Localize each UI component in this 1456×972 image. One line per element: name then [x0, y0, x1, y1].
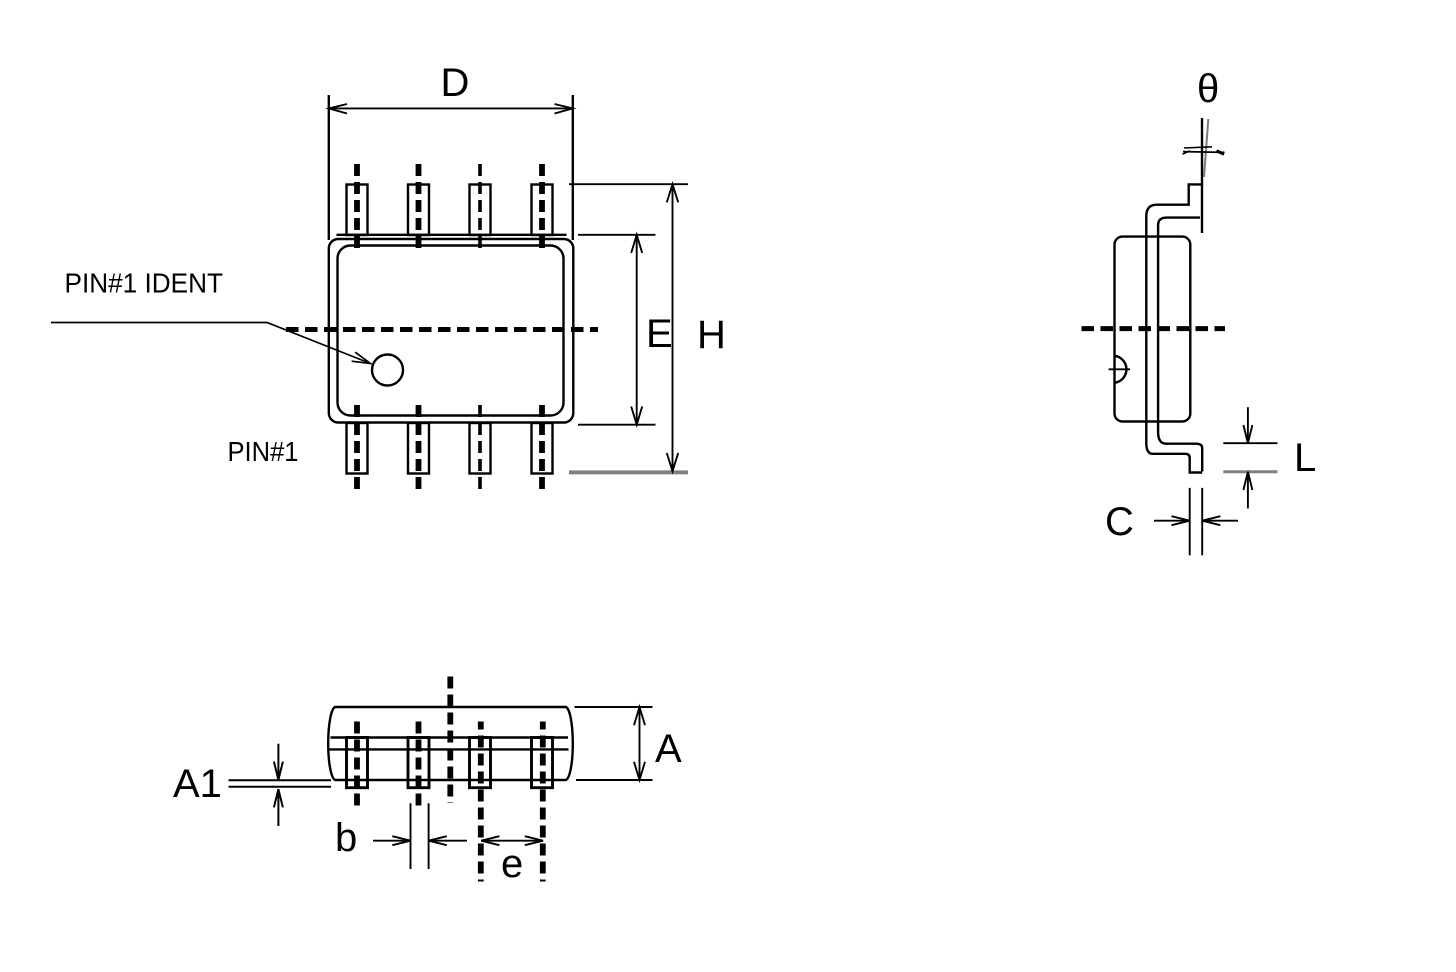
svg-text:D: D [441, 61, 470, 105]
pin 4 (top view) [532, 185, 553, 236]
svg-text:E: E [646, 312, 673, 356]
svg-text:θ: θ [1197, 67, 1219, 111]
svg-text:PIN#1 IDENT: PIN#1 IDENT [65, 268, 224, 299]
leader line to pin#1 ident [51, 323, 371, 364]
dimension E extension lines [578, 235, 656, 425]
dimension A1 arrows [277, 744, 279, 780]
lead 1 centerline [354, 722, 360, 811]
upper lead outer profile (side view) [1146, 184, 1202, 472]
body upper parting line [331, 736, 569, 738]
pin 2 (top view) [408, 185, 429, 236]
pin 3 (top view) [470, 185, 491, 236]
package body outline (front view) [328, 707, 573, 780]
theta angle dimension line [1183, 147, 1225, 154]
body top shoulder line [337, 234, 567, 236]
dimension A1 datum lines [229, 744, 332, 826]
pin 1 centerline [354, 164, 360, 254]
dimension E arrow line [636, 235, 638, 425]
package vertical centerline (front view) [447, 677, 453, 804]
package body outline (side view) [1115, 237, 1191, 422]
pin 7 centerline [416, 405, 422, 493]
pin 6 (top view) [470, 423, 491, 474]
svg-text:A1: A1 [173, 762, 222, 806]
pin 5 centerline [539, 405, 545, 493]
dimension D left extension line [328, 95, 330, 240]
lead 3 (front view) [470, 738, 491, 788]
horizontal centerline (top view) [286, 327, 598, 332]
dimension A arrow line [639, 707, 641, 780]
horizontal centerline (side view) [1082, 326, 1226, 331]
dimension H extension lines [569, 184, 688, 472]
lead tip face reference line [1201, 118, 1203, 233]
dimension L extension lines [1223, 407, 1277, 508]
svg-text:b: b [335, 816, 357, 860]
svg-text:PIN#1: PIN#1 [228, 436, 299, 467]
lead tip angled face line [1204, 119, 1208, 177]
lead 4 (front view) [532, 738, 553, 788]
dimension D arrow line [329, 104, 573, 114]
lead 4 centerline extended for e dimension [540, 722, 546, 882]
svg-text:C: C [1105, 500, 1134, 544]
lead 3 centerline extended for e dimension [478, 722, 484, 882]
pin#1 ident circle [372, 355, 403, 386]
body lower parting line [329, 748, 568, 750]
lead 2 centerline [416, 722, 422, 811]
dimension D right extension line [572, 95, 574, 240]
upper lead inner profile (side view) [1158, 218, 1202, 472]
dimension H arrow line [672, 184, 674, 471]
package body inner outline (top view) [338, 246, 564, 416]
pin 7 (top view) [408, 423, 429, 474]
svg-text:A: A [655, 727, 682, 771]
dimension L arrows [1247, 407, 1249, 443]
dimension C arrows [1154, 520, 1190, 522]
pin#1 ident tick [1109, 368, 1130, 370]
pin 2 centerline [416, 164, 422, 254]
lead 1 (front view) [347, 738, 368, 788]
dimension b extension lines [373, 803, 467, 869]
pin 5 (top view) [532, 423, 553, 474]
svg-text:L: L [1294, 436, 1316, 480]
dimension b arrows [373, 840, 411, 842]
pin 4 centerline [539, 164, 545, 254]
svg-text:H: H [697, 313, 726, 357]
dimension C extension lines [1154, 488, 1238, 556]
lead 2 (front view) [408, 738, 429, 788]
pin 8 centerline [354, 405, 360, 493]
dimension A extension lines [575, 707, 653, 780]
svg-text:e: e [501, 842, 523, 886]
dimension e arrow line [481, 836, 543, 845]
pin#1 ident (side view) semicircle [1115, 356, 1127, 383]
pin 1 (top-left lead, top view) [347, 185, 368, 236]
pin 6 centerline [478, 405, 482, 493]
pin 8 (bottom-left lead, top view) [347, 423, 368, 474]
package body outer outline (top view) [329, 239, 574, 423]
pin 3 centerline [478, 164, 482, 254]
